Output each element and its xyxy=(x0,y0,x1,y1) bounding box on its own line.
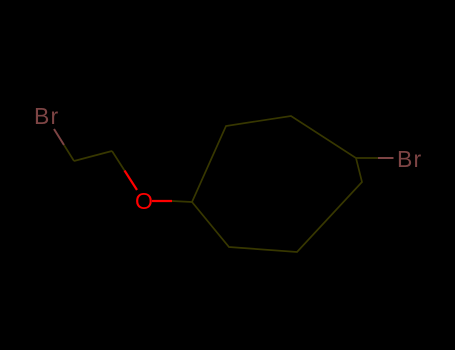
svg-text:O: O xyxy=(135,188,154,214)
svg-text:Br: Br xyxy=(397,146,422,172)
svg-text:Br: Br xyxy=(34,103,59,129)
